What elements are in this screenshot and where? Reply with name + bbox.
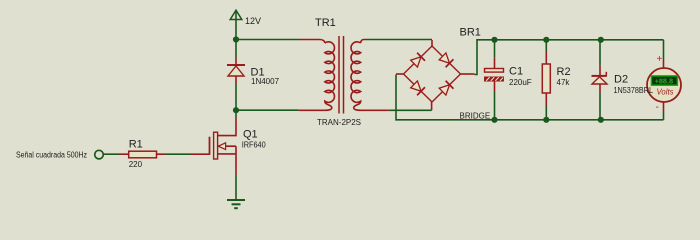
voltmeter [647, 54, 681, 113]
svg-text:TRAN-2P2S: TRAN-2P2S [317, 118, 361, 127]
svg-text:IRF640: IRF640 [242, 141, 267, 150]
bridge rectifier BR1 [396, 27, 490, 121]
wire C1 bottom [494, 91, 496, 120]
svg-text:+: + [657, 54, 663, 65]
svg-text:-: - [656, 102, 659, 113]
svg-text:12V: 12V [245, 16, 261, 26]
svg-text:Señal cuadrada 500Hz: Señal cuadrada 500Hz [16, 151, 87, 160]
node R2 bottom junction [543, 117, 549, 123]
svg-text:C1: C1 [509, 66, 523, 78]
svg-text:R2: R2 [557, 66, 571, 78]
svg-text:BRIDGE: BRIDGE [460, 111, 491, 120]
svg-text:R1: R1 [129, 139, 143, 151]
svg-text:Volts: Volts [657, 88, 674, 97]
resistor R1 [120, 139, 166, 169]
svg-text:TR1: TR1 [315, 17, 336, 29]
wire voltmeter minus to bottom rail [663, 112, 665, 120]
wire bridge positive riser to top rail [475, 40, 664, 75]
svg-text:220: 220 [129, 160, 143, 169]
wire R1 to Q1 gate [166, 153, 191, 155]
wire Q1 source to ground [235, 175, 237, 200]
svg-text:1N5378BRL: 1N5378BRL [614, 86, 654, 95]
wire 12V arrow stem [235, 12, 237, 40]
svg-text:1N4007: 1N4007 [251, 77, 280, 86]
wire D2 top [599, 40, 601, 66]
node D2 bottom junction [598, 117, 604, 123]
node drain junction [233, 107, 239, 113]
wire input terminal to R1 [104, 153, 121, 155]
wire transformer secondary top to bridge AC1 [365, 39, 432, 41]
node 12V junction [233, 36, 239, 42]
wire drain node to transformer primary bottom [236, 109, 299, 111]
wire transformer secondary bottom to bridge AC2 [389, 109, 432, 111]
svg-text:BR1: BR1 [460, 27, 481, 39]
wire 12V node to transformer primary top [236, 39, 299, 41]
svg-text:220uF: 220uF [509, 78, 532, 87]
node R2 top junction [543, 37, 549, 43]
svg-text:Q1: Q1 [243, 129, 258, 141]
power symbol 12V [230, 10, 261, 26]
capacitor C1 [485, 57, 532, 91]
node C1 top junction [491, 37, 497, 43]
wire D2 bottom [599, 93, 601, 120]
wire C1 top [494, 40, 496, 57]
zener diode D2 [592, 65, 629, 92]
ground [227, 200, 245, 208]
node D2 top junction [598, 37, 604, 43]
transformer TR1 [299, 17, 389, 127]
wire bridge negative to bottom rail [396, 75, 664, 120]
resistor R2 [542, 52, 570, 105]
svg-text:+88.8: +88.8 [655, 77, 674, 86]
wire top rail to voltmeter plus [663, 40, 665, 60]
wire R2 bottom [545, 105, 547, 120]
node C1 bottom junction [491, 117, 497, 123]
wire R2 top [545, 40, 547, 52]
svg-text:47k: 47k [557, 78, 571, 87]
wire D1 bottom to drain node [235, 84, 237, 111]
wire 12V node down to D1 [235, 40, 237, 59]
diode D1 [227, 58, 280, 86]
wire drain node down to Q1 drain pin [235, 110, 237, 117]
transistor Q1 (IRF640 MOSFET) [191, 118, 267, 175]
input terminal Señal cuadrada 500Hz [16, 150, 103, 159]
svg-text:D2: D2 [614, 74, 628, 86]
